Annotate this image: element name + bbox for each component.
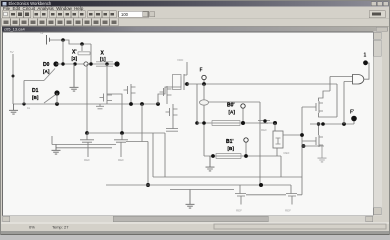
node junction xyxy=(22,102,25,105)
label B0' [A] xyxy=(227,103,235,115)
transistor Q3 xyxy=(166,106,178,118)
switch A pole wire xyxy=(24,81,44,105)
svg-text:D1: D1 xyxy=(32,88,39,94)
node junction xyxy=(317,122,320,125)
wire xyxy=(245,142,247,156)
transistor Q5 pull-up xyxy=(181,62,187,90)
svg-text:F': F' xyxy=(350,110,354,116)
label D0 [A] xyxy=(43,62,50,74)
wire xyxy=(318,124,320,135)
buffer U2 xyxy=(273,131,283,148)
wire xyxy=(107,94,122,133)
label X' [2] xyxy=(72,50,78,61)
transmission gate X xyxy=(96,62,113,66)
svg-text:D0: D0 xyxy=(43,62,50,68)
transmission gate X' xyxy=(78,52,90,55)
wire xyxy=(90,44,92,64)
connector F xyxy=(202,75,206,79)
node junction xyxy=(89,62,92,65)
wire xyxy=(297,177,302,195)
switch B lever xyxy=(44,95,55,103)
wire xyxy=(246,194,286,196)
svg-text:REF: REF xyxy=(236,209,242,213)
wire mid rail xyxy=(13,103,160,105)
wire xyxy=(62,40,64,64)
wire xyxy=(56,93,58,104)
ground xyxy=(52,145,61,155)
ground xyxy=(9,104,18,114)
wire bottom rail xyxy=(106,184,291,186)
toolbar row 1 xyxy=(2,11,385,18)
wire gate leads xyxy=(302,107,313,141)
toolbar row 2 xyxy=(2,18,119,25)
node junction xyxy=(12,75,15,78)
wire VDD top rail xyxy=(50,40,92,44)
node junction xyxy=(244,154,248,158)
svg-text:B1': B1' xyxy=(226,139,234,145)
svg-text:5V: 5V xyxy=(10,50,14,54)
wire xyxy=(203,84,205,156)
node junction xyxy=(211,154,215,158)
wire xyxy=(203,80,205,84)
svg-text:REF: REF xyxy=(285,209,291,213)
MDI strip xyxy=(2,27,388,32)
toolbar separators xyxy=(1,17,389,20)
label D1 [B] xyxy=(32,88,39,100)
node junction xyxy=(202,121,206,125)
wire feedback pair xyxy=(319,84,338,117)
ground xyxy=(206,156,215,171)
wire inverter input xyxy=(283,134,302,136)
title bar xyxy=(1,1,389,7)
node junction on top rail xyxy=(61,38,65,42)
node junction xyxy=(55,102,59,106)
wire nmos source xyxy=(302,145,324,147)
transmission gate B0 xyxy=(212,120,240,125)
wire gate output xyxy=(364,63,369,79)
wire xyxy=(106,64,108,93)
node junction xyxy=(202,82,206,86)
transistor U2 inner xyxy=(276,138,281,144)
source VSS wire xyxy=(12,54,14,104)
wire xyxy=(301,107,303,177)
wire xyxy=(164,133,166,177)
canvas xyxy=(2,32,373,216)
svg-text:F: F xyxy=(200,68,203,74)
terminal F' xyxy=(351,116,357,122)
svg-text:VDD: VDD xyxy=(177,58,184,62)
node junction xyxy=(105,62,108,65)
wire F' node xyxy=(310,121,354,124)
svg-text:REF: REF xyxy=(84,158,90,162)
transistor Q1 xyxy=(100,93,113,104)
node junction xyxy=(129,102,133,106)
transmission gate B1 xyxy=(216,153,241,158)
node junction xyxy=(300,133,304,137)
node junction xyxy=(273,121,277,125)
connector oval xyxy=(200,100,209,105)
wire xyxy=(86,64,88,133)
svg-text:REF: REF xyxy=(118,158,124,162)
wire xyxy=(274,123,276,131)
svg-text:[2]: [2] xyxy=(72,56,78,61)
node junction xyxy=(241,121,245,125)
transistor Q4 xyxy=(160,86,172,98)
node junction xyxy=(263,119,266,122)
ground xyxy=(318,146,327,162)
transistor Q8 xyxy=(80,134,94,158)
transistor Q6 xyxy=(313,101,323,113)
transistor Q9 xyxy=(114,134,128,158)
wire long vertical xyxy=(259,102,261,185)
transistor Q10 xyxy=(235,185,246,205)
ground xyxy=(70,64,79,91)
wire bottom left pair xyxy=(52,136,148,148)
wire xyxy=(172,104,174,129)
wire xyxy=(141,104,143,142)
wire xyxy=(166,98,168,104)
node junction xyxy=(156,102,160,106)
right scrollbar xyxy=(373,32,382,216)
bottom scrollbar xyxy=(2,216,373,223)
wire B1 row xyxy=(204,156,281,177)
node junction xyxy=(195,121,199,125)
node junction xyxy=(80,42,84,46)
wire xyxy=(153,176,302,178)
terminal node xyxy=(114,61,119,66)
ground xyxy=(186,190,195,209)
svg-text:File Edit Circuit Analysis: File Edit Circuit Analysis Window Help xyxy=(3,6,84,11)
terminal node 1 xyxy=(363,60,368,65)
terminal D1 xyxy=(54,90,59,95)
wire xyxy=(242,108,244,123)
svg-text:[A]: [A] xyxy=(229,110,236,115)
node junction xyxy=(146,183,150,187)
svg-text:[A]: [A] xyxy=(43,69,50,74)
capacitor C1 xyxy=(166,129,178,132)
capacitor C2 xyxy=(96,106,104,109)
wire xyxy=(209,101,261,103)
wire xyxy=(152,133,154,177)
svg-text:[B]: [B] xyxy=(32,95,39,100)
node junction xyxy=(321,122,325,126)
terminal D0 xyxy=(53,61,58,66)
wire xyxy=(196,84,198,123)
wire F output xyxy=(187,83,337,85)
wire xyxy=(276,148,278,156)
wire B0 row xyxy=(197,122,276,124)
node junction xyxy=(259,183,263,187)
label B1' [B] xyxy=(226,139,234,151)
svg-text:REF: REF xyxy=(284,151,290,155)
node junction xyxy=(302,144,306,148)
svg-text:1: 1 xyxy=(364,53,367,59)
status bar xyxy=(1,223,389,231)
transistor Q2 xyxy=(124,84,136,104)
connector node xyxy=(84,62,88,66)
wire xyxy=(99,104,101,106)
svg-text:[1]: [1] xyxy=(100,57,106,62)
transistor Q5 body xyxy=(173,75,182,90)
gate U1 xyxy=(353,75,364,85)
node junction xyxy=(120,131,124,135)
svg-text:100: 100 xyxy=(121,12,129,17)
svg-text:REF: REF xyxy=(261,128,267,132)
node junction xyxy=(185,82,189,86)
gate U1 inputs xyxy=(330,77,353,82)
node junction xyxy=(85,131,89,135)
wire xyxy=(81,44,83,51)
wire xyxy=(170,189,234,191)
wire long vertical xyxy=(147,142,149,186)
battery V1 xyxy=(40,31,50,45)
node junction xyxy=(140,102,144,106)
svg-text:1k: 1k xyxy=(27,106,31,110)
transistor Q12 xyxy=(258,121,270,124)
svg-text:0%: 0% xyxy=(29,224,35,229)
wire gate lead xyxy=(158,87,181,104)
svg-text:5V: 5V xyxy=(40,31,44,35)
svg-text:Temp: 27: Temp: 27 xyxy=(52,224,69,229)
svg-text:X': X' xyxy=(72,50,77,56)
wire lower rail xyxy=(87,132,165,134)
connector B0 xyxy=(241,104,245,108)
wire xyxy=(319,77,331,102)
svg-text:B0': B0' xyxy=(227,103,235,109)
wire data rail xyxy=(56,63,117,65)
node junction xyxy=(73,62,76,65)
wire xyxy=(343,82,345,125)
svg-text:[B]: [B] xyxy=(228,146,235,151)
svg-text:c05_13.ca4: c05_13.ca4 xyxy=(4,27,25,32)
node junction xyxy=(61,62,64,65)
switch A lever xyxy=(44,69,55,81)
transistor Q11 xyxy=(286,185,297,205)
transistor Q7 xyxy=(313,135,323,147)
connector B1 xyxy=(244,138,248,142)
label X [1] xyxy=(100,51,106,62)
